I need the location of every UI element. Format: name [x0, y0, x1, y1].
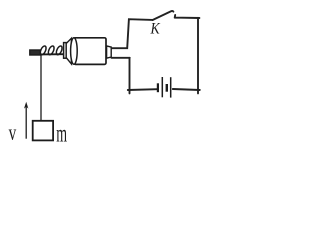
- svg-text:v: v: [9, 120, 17, 145]
- svg-text:m: m: [56, 121, 67, 148]
- svg-text:K: K: [150, 21, 161, 38]
